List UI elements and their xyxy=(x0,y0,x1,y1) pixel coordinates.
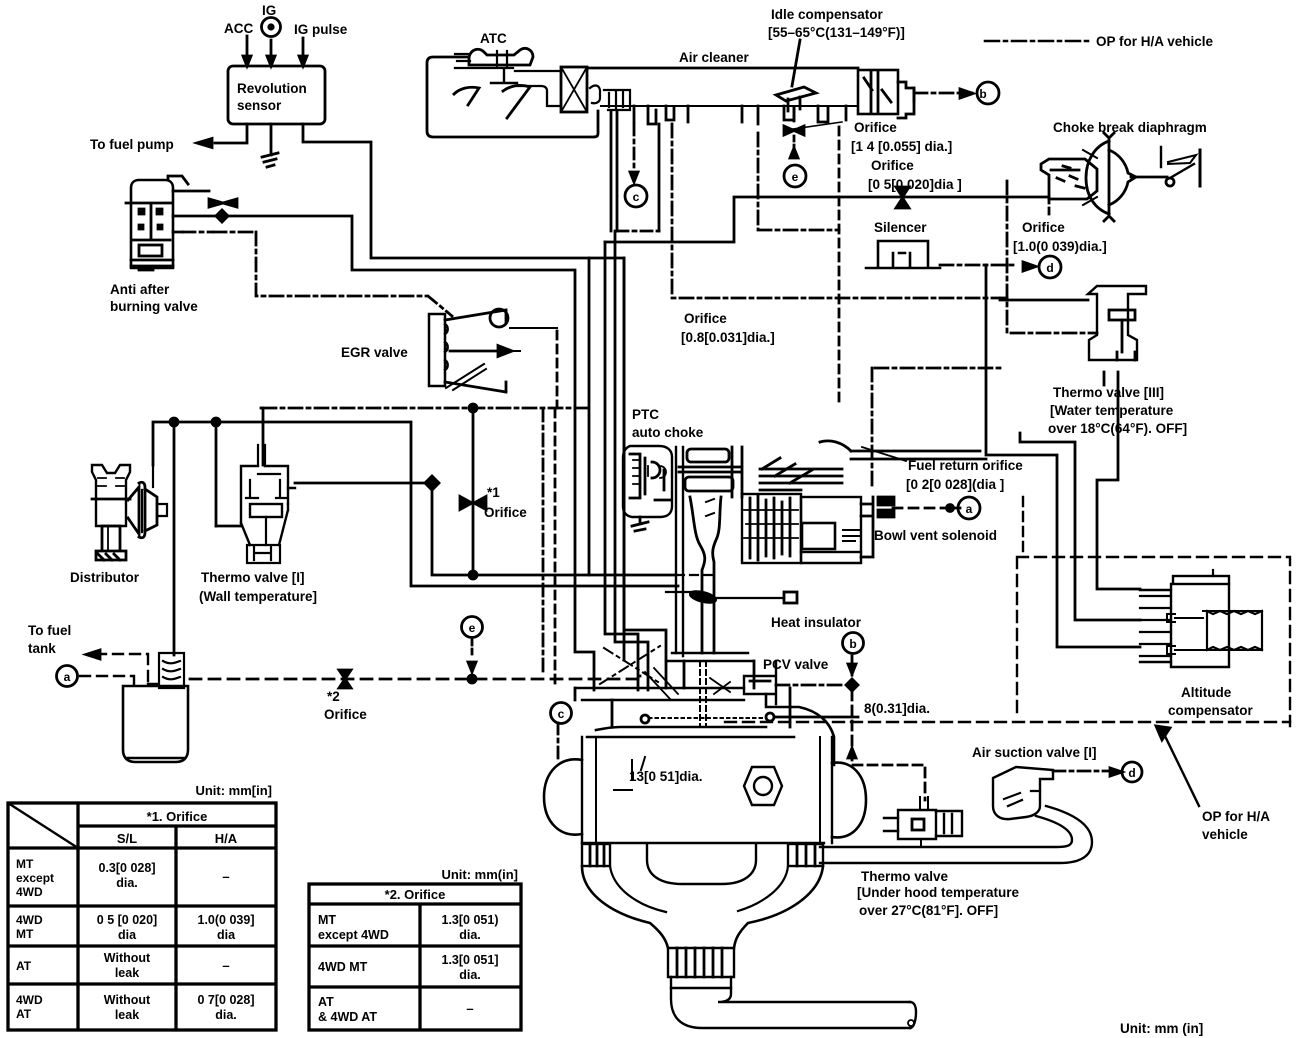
svg-text:MT: MT xyxy=(318,913,336,927)
svg-text:AT: AT xyxy=(318,995,334,1009)
svg-text:tank: tank xyxy=(28,641,56,656)
svg-text:Bowl vent solenoid: Bowl vent solenoid xyxy=(874,528,997,543)
svg-text:Revolution: Revolution xyxy=(237,81,307,96)
svg-text:Orifice: Orifice xyxy=(854,120,897,135)
svg-text:*2. Orifice: *2. Orifice xyxy=(385,887,446,902)
svg-text:[0 5[0 020]dia ]: [0 5[0 020]dia ] xyxy=(868,177,962,192)
svg-text:auto choke: auto choke xyxy=(632,425,704,440)
svg-text:IG: IG xyxy=(262,3,276,18)
svg-text:Air suction valve [I]: Air suction valve [I] xyxy=(972,745,1097,760)
svg-text:d: d xyxy=(1128,766,1135,780)
svg-text:Air cleaner: Air cleaner xyxy=(679,50,750,65)
svg-text:Choke break diaphragm: Choke break diaphragm xyxy=(1053,120,1207,135)
svg-text:[0.8[0.031]dia.]: [0.8[0.031]dia.] xyxy=(681,330,775,345)
svg-text:except 4WD: except 4WD xyxy=(318,928,389,942)
svg-text:PCV valve: PCV valve xyxy=(763,657,829,672)
svg-text:Without: Without xyxy=(104,951,151,965)
svg-text:vehicle: vehicle xyxy=(1202,827,1248,842)
svg-text:e: e xyxy=(792,170,799,184)
svg-text:Thermo valve: Thermo valve xyxy=(861,869,949,884)
svg-text:[1.0(0 039)dia.]: [1.0(0 039)dia.] xyxy=(1013,239,1107,254)
svg-text:[Water temperature: [Water temperature xyxy=(1050,403,1174,418)
svg-text:Fuel return orifice: Fuel return orifice xyxy=(908,458,1023,473)
svg-text:dia: dia xyxy=(217,928,236,942)
svg-text:dia.: dia. xyxy=(116,876,138,890)
svg-text:Orifice: Orifice xyxy=(871,158,914,173)
svg-text:*1: *1 xyxy=(487,485,500,500)
svg-text:PTC: PTC xyxy=(632,407,659,422)
svg-text:4WD: 4WD xyxy=(16,913,43,927)
svg-text:Anti after: Anti after xyxy=(110,282,170,297)
svg-text:dia.: dia. xyxy=(215,1008,237,1022)
svg-text:Unit: mm(in]: Unit: mm(in] xyxy=(441,867,518,882)
svg-text:[0 2[0 028](dia ]: [0 2[0 028](dia ] xyxy=(906,477,1004,492)
svg-text:H/A: H/A xyxy=(215,831,238,846)
svg-text:Orifice: Orifice xyxy=(324,707,367,722)
svg-text:burning valve: burning valve xyxy=(110,299,198,314)
svg-text:0 7[0 028]: 0 7[0 028] xyxy=(198,993,255,1007)
svg-text:[Under hood temperature: [Under hood temperature xyxy=(857,885,1020,900)
svg-text:Heat insulator: Heat insulator xyxy=(771,615,862,630)
svg-text:–: – xyxy=(222,869,229,884)
svg-text:–: – xyxy=(222,958,229,973)
svg-text:8(0.31]dia.: 8(0.31]dia. xyxy=(864,701,930,716)
svg-text:d: d xyxy=(1046,261,1053,275)
svg-text:4WD MT: 4WD MT xyxy=(318,960,368,974)
svg-text:4WD: 4WD xyxy=(16,885,43,899)
svg-text:0.3[0 028]: 0.3[0 028] xyxy=(99,861,156,875)
svg-text:dia: dia xyxy=(118,928,137,942)
svg-text:–: – xyxy=(466,1001,473,1016)
svg-text:b: b xyxy=(849,637,856,651)
svg-text:*2: *2 xyxy=(327,689,340,704)
svg-text:Thermo valve [I]: Thermo valve [I] xyxy=(201,570,305,585)
svg-text:OP for H/A: OP for H/A xyxy=(1202,809,1270,824)
svg-text:compensator: compensator xyxy=(1168,703,1254,718)
svg-text:c: c xyxy=(633,190,640,204)
svg-text:Orifice: Orifice xyxy=(1022,220,1065,235)
svg-text:dia.: dia. xyxy=(459,968,481,982)
svg-text:AT: AT xyxy=(16,1007,32,1021)
svg-text:dia.: dia. xyxy=(459,928,481,942)
svg-text:except: except xyxy=(16,871,54,885)
svg-text:Without: Without xyxy=(104,993,151,1007)
svg-text:b: b xyxy=(979,87,986,101)
svg-text:leak: leak xyxy=(115,1008,139,1022)
svg-text:IG pulse: IG pulse xyxy=(294,22,348,37)
svg-text:*1. Orifice: *1. Orifice xyxy=(147,809,208,824)
svg-text:1.3[0 051): 1.3[0 051) xyxy=(442,913,499,927)
svg-text:EGR valve: EGR valve xyxy=(341,345,408,360)
svg-text:over 27°C(81°F]. OFF]: over 27°C(81°F]. OFF] xyxy=(859,903,998,918)
svg-text:13[0 51]dia.: 13[0 51]dia. xyxy=(629,769,703,784)
svg-text:1.0(0 039]: 1.0(0 039] xyxy=(198,913,255,927)
svg-text:4WD: 4WD xyxy=(16,993,43,1007)
svg-text:c: c xyxy=(558,707,565,721)
svg-text:ACC: ACC xyxy=(224,21,253,36)
svg-text:0 5 [0 020]: 0 5 [0 020] xyxy=(97,913,157,927)
svg-text:[1 4 [0.055] dia.]: [1 4 [0.055] dia.] xyxy=(851,139,952,154)
svg-text:[55–65°C(131–149°F)]: [55–65°C(131–149°F)] xyxy=(768,25,905,40)
svg-text:Distributor: Distributor xyxy=(70,570,140,585)
svg-text:Unit: mm (in]: Unit: mm (in] xyxy=(1120,1021,1203,1036)
svg-text:AT: AT xyxy=(16,959,32,973)
svg-text:OP for H/A vehicle: OP for H/A vehicle xyxy=(1096,34,1214,49)
svg-text:over 18°C(64°F). OFF]: over 18°C(64°F). OFF] xyxy=(1048,421,1187,436)
svg-text:Thermo valve [III]: Thermo valve [III] xyxy=(1053,385,1164,400)
svg-text:& 4WD AT: & 4WD AT xyxy=(318,1010,377,1024)
svg-text:Silencer: Silencer xyxy=(874,220,927,235)
svg-text:MT: MT xyxy=(16,857,34,871)
svg-text:Unit: mm[in]: Unit: mm[in] xyxy=(195,783,272,798)
svg-text:1.3[0 051]: 1.3[0 051] xyxy=(442,953,499,967)
svg-text:sensor: sensor xyxy=(237,98,282,113)
svg-text:a: a xyxy=(64,670,71,684)
svg-text:ATC: ATC xyxy=(480,31,507,46)
svg-text:Orifice: Orifice xyxy=(484,505,527,520)
svg-text:a: a xyxy=(966,502,973,516)
svg-text:S/L: S/L xyxy=(117,831,137,846)
svg-text:leak: leak xyxy=(115,966,139,980)
svg-text:Idle compensator: Idle compensator xyxy=(771,7,884,22)
svg-text:Altitude: Altitude xyxy=(1181,685,1232,700)
svg-text:Orifice: Orifice xyxy=(684,311,727,326)
svg-text:(Wall temperature]: (Wall temperature] xyxy=(199,589,317,604)
svg-text:To fuel pump: To fuel pump xyxy=(90,137,174,152)
svg-text:To fuel: To fuel xyxy=(28,623,71,638)
svg-text:e: e xyxy=(469,621,476,635)
svg-text:MT: MT xyxy=(16,927,34,941)
